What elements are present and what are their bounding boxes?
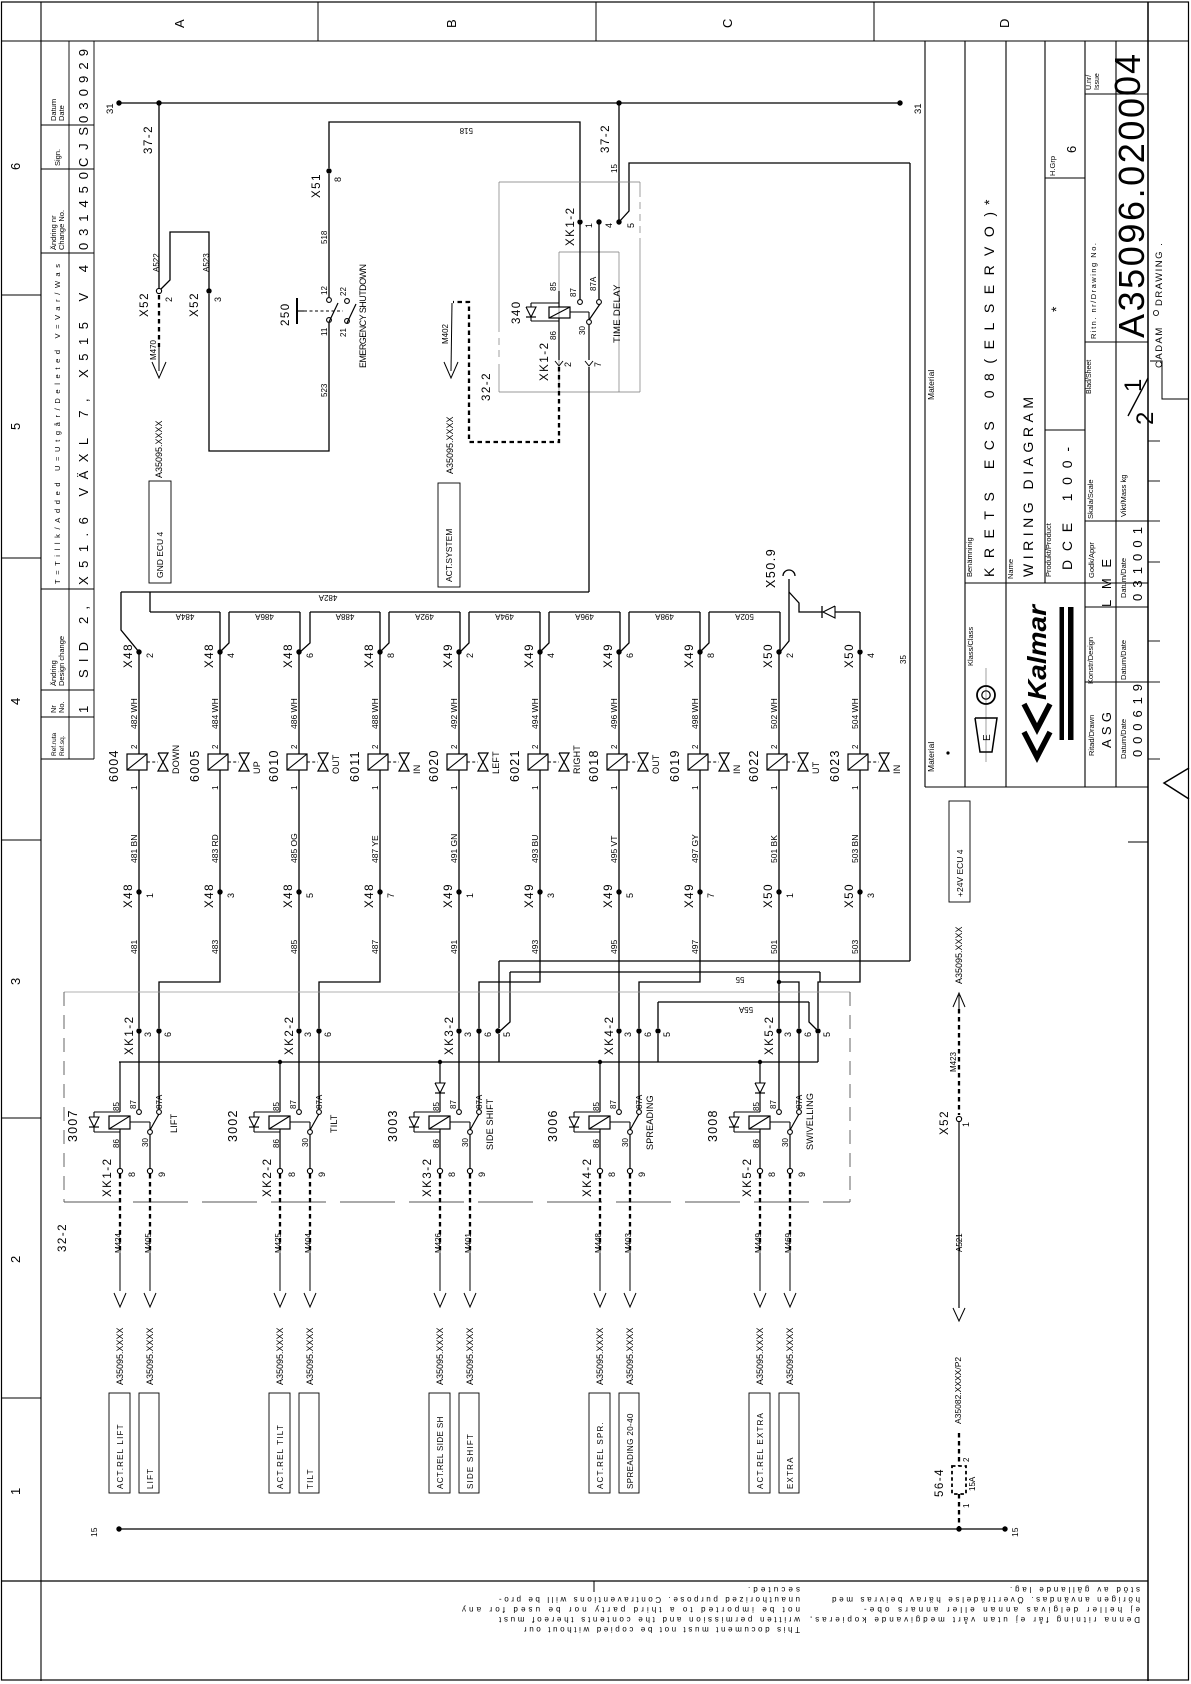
svg-text:497: 497 (690, 940, 700, 954)
svg-text:M469: M469 (784, 1232, 793, 1253)
svg-text:A35095.XXXX: A35095.XXXX (625, 1327, 635, 1385)
svg-text:Klass/Class: Klass/Class (966, 627, 975, 666)
svg-text:04: 04 (1107, 54, 1148, 96)
svg-text:1: 1 (961, 1122, 971, 1127)
box ACT.REL SIDE SH (429, 1393, 450, 1493)
svg-text:481 BN: 481 BN (129, 835, 139, 863)
svg-text:498A: 498A (654, 612, 673, 621)
svg-text:Ref.sq.: Ref.sq. (59, 735, 66, 756)
wire 494A left slant (460, 612, 469, 652)
svg-text:XK1-2: XK1-2 (124, 1016, 136, 1055)
svg-text:XK1-2: XK1-2 (102, 1158, 114, 1197)
svg-text:This document must not be copi: This document must not be copied without… (524, 1625, 800, 1634)
svg-text:1: 1 (531, 785, 540, 790)
svg-text:6011: 6011 (348, 750, 362, 782)
connector X48 pin 1 bottom channel 1 (136, 889, 141, 894)
node junction 37-2 left (156, 100, 161, 105)
svg-text:ASG: ASG (1099, 712, 1114, 748)
svg-text:Name: Name (1006, 559, 1015, 579)
svg-text:482A: 482A (318, 593, 337, 602)
svg-text:1: 1 (450, 785, 459, 790)
svg-text:OUT: OUT (331, 754, 341, 774)
wire channel 10 to XK5-2 pin5 (818, 892, 860, 1028)
svg-text:Vikt/Mass kg: Vikt/Mass kg (1119, 475, 1128, 517)
svg-text:8: 8 (386, 653, 396, 658)
svg-text:9: 9 (797, 1172, 807, 1177)
svg-text:1: 1 (962, 1503, 971, 1508)
svg-text:Design change: Design change (57, 636, 66, 686)
svg-text:495 VT: 495 VT (609, 836, 619, 863)
svg-text:6020: 6020 (427, 749, 441, 782)
wire coil supply bus 55A (119, 1061, 818, 1063)
svg-text:15: 15 (610, 164, 619, 173)
svg-text:6: 6 (305, 653, 315, 658)
node XK1-2 pin6 (156, 1028, 161, 1033)
svg-text:1: 1 (1120, 379, 1147, 392)
node XK5-2 pin6 (796, 1028, 801, 1033)
svg-text:503: 503 (850, 940, 860, 954)
svg-text:X48: X48 (364, 643, 376, 668)
svg-text:XK2-2: XK2-2 (262, 1158, 274, 1197)
svg-text:M424: M424 (114, 1232, 123, 1253)
svg-text:2: 2 (563, 362, 573, 367)
connector X50 pin 4 top channel 10 (857, 649, 862, 654)
svg-text:U.nr/: U.nr/ (1086, 75, 1093, 90)
wire odd channels down to XK pin3 (138, 892, 140, 1028)
wire A521 (958, 1122, 960, 1308)
svg-text:493: 493 (530, 940, 540, 954)
svg-text:Date: Date (57, 105, 66, 121)
svg-text:Datum/Date: Datum/Date (1119, 719, 1128, 759)
svg-text:15: 15 (1010, 1527, 1020, 1537)
svg-text:496 WH: 496 WH (609, 698, 619, 729)
svg-text:A523: A523 (202, 253, 211, 272)
wire 482 WH (138, 652, 140, 754)
wire M425 dashed (279, 1174, 281, 1253)
svg-text:495: 495 (609, 940, 619, 954)
svg-text:486 WH: 486 WH (289, 698, 299, 729)
connector X50 pin 3 bottom channel 10 (857, 889, 862, 894)
wire rail 502A (709, 611, 780, 613)
svg-text:87A: 87A (315, 1094, 324, 1109)
svg-text:6005: 6005 (188, 749, 202, 782)
wire 501 BK (778, 770, 780, 892)
svg-text:A521: A521 (955, 1233, 964, 1252)
valve symbol IN (388, 761, 399, 763)
svg-text:7: 7 (706, 893, 716, 898)
wire M403 dashed (629, 1174, 631, 1253)
svg-text:Ritad/Drawn: Ritad/Drawn (1087, 715, 1096, 756)
wire M405 dashed (149, 1174, 151, 1253)
svg-text:EMERGENCY SHUTDOWN: EMERGENCY SHUTDOWN (358, 264, 368, 368)
connector X49 pin 4 top channel 6 (537, 649, 542, 654)
svg-text:487 YE: 487 YE (370, 835, 380, 863)
svg-text:6019: 6019 (668, 749, 682, 782)
svg-text:ACT.REL LIFT: ACT.REL LIFT (116, 1423, 125, 1489)
coil 6019 (688, 754, 708, 770)
wire 518 X51:8 (329, 122, 580, 219)
wire 495 VT (618, 770, 620, 892)
title block E-symbol (985, 668, 987, 762)
svg-text:LEFT: LEFT (491, 751, 501, 774)
svg-text:2: 2 (164, 297, 174, 302)
wire 486 WH (298, 652, 300, 754)
wire XK1-2 pin3 to 87 (138, 1031, 140, 1109)
svg-text:87: 87 (129, 1100, 138, 1109)
svg-text:A35096.0200: A35096.0200 (1111, 98, 1152, 338)
svg-text:6022: 6022 (747, 749, 761, 782)
node XK1-2 pin4 (596, 219, 601, 224)
svg-text:340: 340 (511, 300, 523, 324)
box ACT.REL SPR. (589, 1393, 610, 1493)
wire rail 492A (389, 611, 460, 613)
svg-text:M425: M425 (274, 1232, 283, 1253)
svg-text:1: 1 (290, 785, 299, 790)
relay 3008 supply drop (759, 1062, 761, 1083)
svg-text:+24V ECU 4: +24V ECU 4 (955, 849, 965, 897)
wire X50.9 to X50:2 (780, 579, 789, 652)
svg-text:A522: A522 (152, 253, 161, 272)
connector X52 pin1 (956, 1116, 961, 1121)
svg-text:X50: X50 (763, 643, 775, 668)
valve symbol OUT (307, 761, 318, 763)
svg-text:Sign.: Sign. (53, 149, 62, 166)
node XK3-2 pin6 (476, 1028, 481, 1033)
svg-text:2: 2 (785, 653, 795, 658)
svg-text:X50: X50 (763, 883, 775, 908)
coil 6010 (287, 754, 307, 770)
relay socket XK1-2 outline (499, 181, 640, 183)
svg-text:3002: 3002 (226, 1109, 240, 1142)
svg-text:87: 87 (569, 288, 578, 297)
wire 15 bottom bus (119, 1528, 1005, 1530)
wire rail 486A (229, 611, 300, 613)
svg-text:56-4: 56-4 (934, 1468, 946, 1497)
svg-text:4: 4 (866, 653, 876, 658)
wire 498A left slant (620, 612, 629, 652)
svg-text:8: 8 (447, 1172, 457, 1177)
svg-text:518: 518 (320, 230, 329, 244)
svg-text:30: 30 (621, 1138, 630, 1147)
svg-text:Kalmar: Kalmar (1022, 603, 1052, 700)
grid number dividers left (2, 294, 41, 296)
svg-text:SPREADING: SPREADING (645, 1095, 655, 1150)
svg-text:1: 1 (851, 785, 860, 790)
revision table grid (68, 41, 70, 759)
svg-text:OUT: OUT (651, 754, 661, 774)
wire 492A left slant (380, 612, 389, 652)
wire 504 WH (859, 652, 861, 754)
svg-text:A35095.XXXX: A35095.XXXX (435, 1327, 445, 1385)
connector X49 pin 6 top channel 7 (616, 649, 621, 654)
svg-text:5: 5 (822, 1032, 832, 1037)
connector X48 pin 8 top channel 4 (377, 649, 382, 654)
svg-text:3: 3 (463, 1032, 473, 1037)
svg-text:30: 30 (781, 1138, 790, 1147)
connector X49 pin 3 bottom channel 6 (537, 889, 542, 894)
box TILT (299, 1393, 319, 1493)
svg-text:3: 3 (783, 1032, 793, 1037)
svg-text:518: 518 (459, 126, 473, 135)
svg-text:Datum/Date: Datum/Date (1119, 558, 1128, 598)
wire XK4-2 pin6 to 87A (638, 1031, 640, 1109)
svg-text:1: 1 (76, 706, 91, 713)
wire XK3-2 pin6 to 87A (478, 1031, 480, 1109)
wire 492 WH (458, 652, 460, 754)
svg-text:M401: M401 (464, 1232, 473, 1253)
svg-text:XK4-2: XK4-2 (582, 1158, 594, 1197)
time delay relay 340 contact (570, 311, 589, 313)
svg-text:3: 3 (143, 1032, 153, 1037)
svg-text:ACT.REL EXTRA: ACT.REL EXTRA (756, 1412, 765, 1489)
Kalmar logo (1024, 704, 1050, 729)
box ACT.REL EXTRA (749, 1393, 770, 1493)
svg-text:30: 30 (301, 1138, 310, 1147)
fuse 56-4 15A (952, 1466, 966, 1494)
svg-text:M449: M449 (754, 1232, 763, 1253)
coil 6022 (767, 754, 787, 770)
grid letter dividers top (317, 2, 319, 41)
svg-text:M404: M404 (304, 1232, 313, 1253)
connector X49 pin 2 top channel 5 (456, 649, 461, 654)
svg-text:secuted.: secuted. (748, 1585, 800, 1594)
svg-text:30: 30 (141, 1138, 150, 1147)
svg-text:5: 5 (502, 1032, 512, 1037)
relay 3006 contact (617, 1110, 622, 1115)
svg-text:A35095.XXXX: A35095.XXXX (305, 1327, 315, 1385)
svg-text:37-2: 37-2 (143, 125, 155, 154)
svg-text:3: 3 (866, 893, 876, 898)
node XK2-2 pin3 (296, 1028, 301, 1033)
svg-text:X50.9: X50.9 (764, 548, 778, 588)
svg-text:494 WH: 494 WH (530, 698, 540, 729)
svg-text:A35095.XXXX: A35095.XXXX (275, 1327, 285, 1385)
svg-text:A35095.XXXX: A35095.XXXX (595, 1327, 605, 1385)
wire XK5-2:5 drop to bus (817, 1034, 819, 1062)
svg-text:2: 2 (962, 1457, 971, 1462)
right margin corner mark (1150, 361, 1189, 399)
svg-text:X50: X50 (844, 883, 856, 908)
valve symbol UP (228, 761, 239, 763)
svg-text:484 WH: 484 WH (210, 698, 220, 729)
svg-text:A35095.XXXX: A35095.XXXX (445, 416, 455, 474)
wire 496 WH (618, 652, 620, 754)
wire 55 line (499, 960, 910, 962)
svg-text:ACT.REL SIDE SH: ACT.REL SIDE SH (436, 1416, 445, 1489)
svg-text:1: 1 (145, 893, 155, 898)
valve symbol RIGHT (548, 761, 559, 763)
svg-text:503 BN: 503 BN (850, 835, 860, 863)
svg-text:9: 9 (477, 1172, 487, 1177)
svg-text:6: 6 (163, 1032, 173, 1037)
svg-text:LIFT: LIFT (146, 1468, 155, 1489)
node 31 right (897, 100, 902, 105)
svg-text:85: 85 (549, 282, 558, 291)
connector X52 pin2 (156, 288, 161, 293)
valve symbol DOWN (147, 761, 158, 763)
svg-text:M470: M470 (149, 339, 158, 360)
wire 55 drop to XK3-2:5 (498, 961, 500, 1028)
relay 3003 contact (457, 1110, 462, 1115)
node XK4-2 pin6 (636, 1028, 641, 1033)
wire rail 484A link up (149, 592, 151, 612)
wire XK2-2 pin3 to 87 (298, 1031, 300, 1109)
wire XK1-2:1 to 87 (579, 222, 581, 299)
svg-text:6: 6 (803, 1032, 813, 1037)
svg-text:M423: M423 (949, 1051, 958, 1072)
connector X50 pin 2 top channel 9 (776, 649, 781, 654)
svg-text:TILT: TILT (306, 1468, 315, 1489)
svg-text:Godk/Appr: Godk/Appr (1087, 542, 1096, 578)
svg-text:497 GY: 497 GY (690, 834, 700, 863)
wire 35 right side vertical (909, 163, 911, 961)
svg-text:Material: Material (926, 742, 936, 772)
relay 3007 suppression diode (94, 1111, 120, 1113)
svg-text:9: 9 (317, 1172, 327, 1177)
svg-text:X52: X52 (189, 292, 201, 317)
svg-text:7: 7 (593, 362, 603, 367)
svg-text:85: 85 (272, 1102, 281, 1111)
svg-text:M448: M448 (594, 1232, 603, 1253)
svg-text:XK2-2: XK2-2 (284, 1016, 296, 1055)
relay 3008 suppression diode (734, 1111, 760, 1113)
svg-text:85: 85 (592, 1102, 601, 1111)
svg-text:Benämninig: Benämninig (965, 537, 974, 577)
svg-text:A35095.XXXX: A35095.XXXX (755, 1327, 765, 1385)
svg-text:Ref.ruta: Ref.ruta (51, 732, 58, 756)
box GND ECU 4 (149, 481, 171, 583)
svg-text:No.: No. (57, 701, 66, 713)
svg-text:37-2: 37-2 (600, 124, 612, 153)
svg-text:3008: 3008 (706, 1109, 720, 1142)
relay 3007 supply drop (119, 1062, 121, 1112)
valve symbol UT (787, 761, 798, 763)
svg-text:D: D (997, 19, 1012, 28)
svg-text:3: 3 (226, 893, 236, 898)
connector X49 pin 8 top channel 8 (697, 649, 702, 654)
svg-text:E: E (982, 734, 993, 741)
svg-text:1: 1 (691, 785, 700, 790)
svg-text:5: 5 (626, 223, 636, 228)
wire 55A slant to XK5-2:5 (809, 1002, 818, 1031)
svg-text:87A: 87A (589, 276, 598, 291)
wire 483 RD (219, 770, 221, 892)
svg-text:2: 2 (8, 1256, 23, 1263)
svg-text:X48: X48 (364, 883, 376, 908)
svg-text:85: 85 (432, 1102, 441, 1111)
svg-text:IN: IN (892, 765, 902, 774)
svg-text:2: 2 (130, 744, 139, 749)
svg-text:485 OG: 485 OG (289, 833, 299, 863)
coil 6018 (607, 754, 627, 770)
wire rail 484A (150, 611, 220, 613)
svg-text:ACT.REL TILT: ACT.REL TILT (276, 1424, 285, 1489)
svg-text:*: * (981, 199, 997, 205)
svg-text:22: 22 (339, 287, 348, 296)
svg-text:502A: 502A (734, 612, 753, 621)
svg-text:488A: 488A (335, 612, 354, 621)
svg-text:X52: X52 (939, 1110, 951, 1135)
svg-text:M426: M426 (434, 1232, 443, 1253)
right margin photocopy chevron (1164, 768, 1189, 799)
svg-text:IN: IN (732, 765, 742, 774)
wire 502 WH (778, 652, 780, 754)
svg-text:XK3-2: XK3-2 (422, 1158, 434, 1197)
svg-text:X48: X48 (123, 643, 135, 668)
svg-text:2: 2 (770, 744, 779, 749)
svg-text:523: 523 (320, 383, 329, 397)
svg-text:X51: X51 (311, 173, 323, 198)
node X52 pin3 (206, 288, 211, 293)
wire rail 498A (629, 611, 700, 613)
wire M404 dashed (309, 1174, 311, 1253)
svg-text:ACT.REL SPR.: ACT.REL SPR. (596, 1421, 605, 1489)
boundary 32-2 box (64, 991, 850, 993)
connector X49 pin 7 bottom channel 8 (697, 889, 702, 894)
wire 15 to right edge (619, 163, 910, 222)
svg-text:2: 2 (1132, 412, 1159, 425)
svg-text:485: 485 (289, 940, 299, 954)
diode to X50:4 (821, 606, 823, 618)
box ACT.REL TILT (269, 1393, 290, 1493)
svg-text:XK1-2: XK1-2 (565, 207, 577, 246)
relay 3006 coil (589, 1116, 610, 1129)
node 15 right (1002, 1526, 1007, 1531)
svg-text:Produkt/Product: Produkt/Product (1044, 522, 1053, 577)
svg-text:6021: 6021 (508, 749, 522, 782)
svg-text:5: 5 (305, 893, 315, 898)
svg-text:X49: X49 (524, 643, 536, 668)
wire M424 dashed (119, 1174, 121, 1253)
svg-text:GND ECU 4: GND ECU 4 (155, 531, 165, 578)
svg-text:Datum/Date: Datum/Date (1119, 640, 1128, 680)
svg-text:483: 483 (210, 940, 220, 954)
svg-text:X48: X48 (204, 643, 216, 668)
box ACT.SYSTEM (438, 483, 460, 587)
svg-text:30: 30 (461, 1138, 470, 1147)
node 15 left (116, 1526, 121, 1531)
svg-text:6: 6 (1064, 146, 1079, 153)
node XK5-2 pin5 (815, 1028, 820, 1033)
svg-text:B: B (444, 19, 459, 28)
box LIFT (139, 1393, 159, 1493)
svg-text:Skala/Scale: Skala/Scale (1086, 479, 1095, 519)
node XK3-2 pin5 (495, 1028, 500, 1033)
wire M426 dashed (439, 1174, 441, 1253)
svg-text:9: 9 (157, 1172, 167, 1177)
svg-text:30: 30 (578, 326, 587, 335)
svg-text:501 BK: 501 BK (769, 835, 779, 863)
svg-text:SWIVELLING: SWIVELLING (805, 1093, 815, 1150)
svg-text:1: 1 (465, 893, 475, 898)
connector X48 pin 6 top channel 3 (296, 649, 301, 654)
svg-text:1: 1 (584, 223, 594, 228)
relay 3002 contact (297, 1110, 302, 1115)
svg-text:XK4-2: XK4-2 (604, 1016, 616, 1055)
valve symbol OUT (627, 761, 638, 763)
svg-text:A: A (172, 19, 187, 28)
node XK4-2 pin3 (616, 1028, 621, 1033)
svg-text:Konstr/Design: Konstr/Design (1086, 637, 1095, 684)
svg-text:XK1-2: XK1-2 (539, 342, 551, 381)
svg-text:8: 8 (287, 1172, 297, 1177)
svg-text:DRAWING .: DRAWING . (1154, 242, 1165, 306)
node XK1-2 pin3 (136, 1028, 141, 1033)
svg-text:481: 481 (129, 940, 139, 954)
svg-text:2: 2 (145, 653, 155, 658)
wire XK4-2:5 drop to bus (657, 1034, 659, 1062)
svg-text:85: 85 (112, 1102, 121, 1111)
